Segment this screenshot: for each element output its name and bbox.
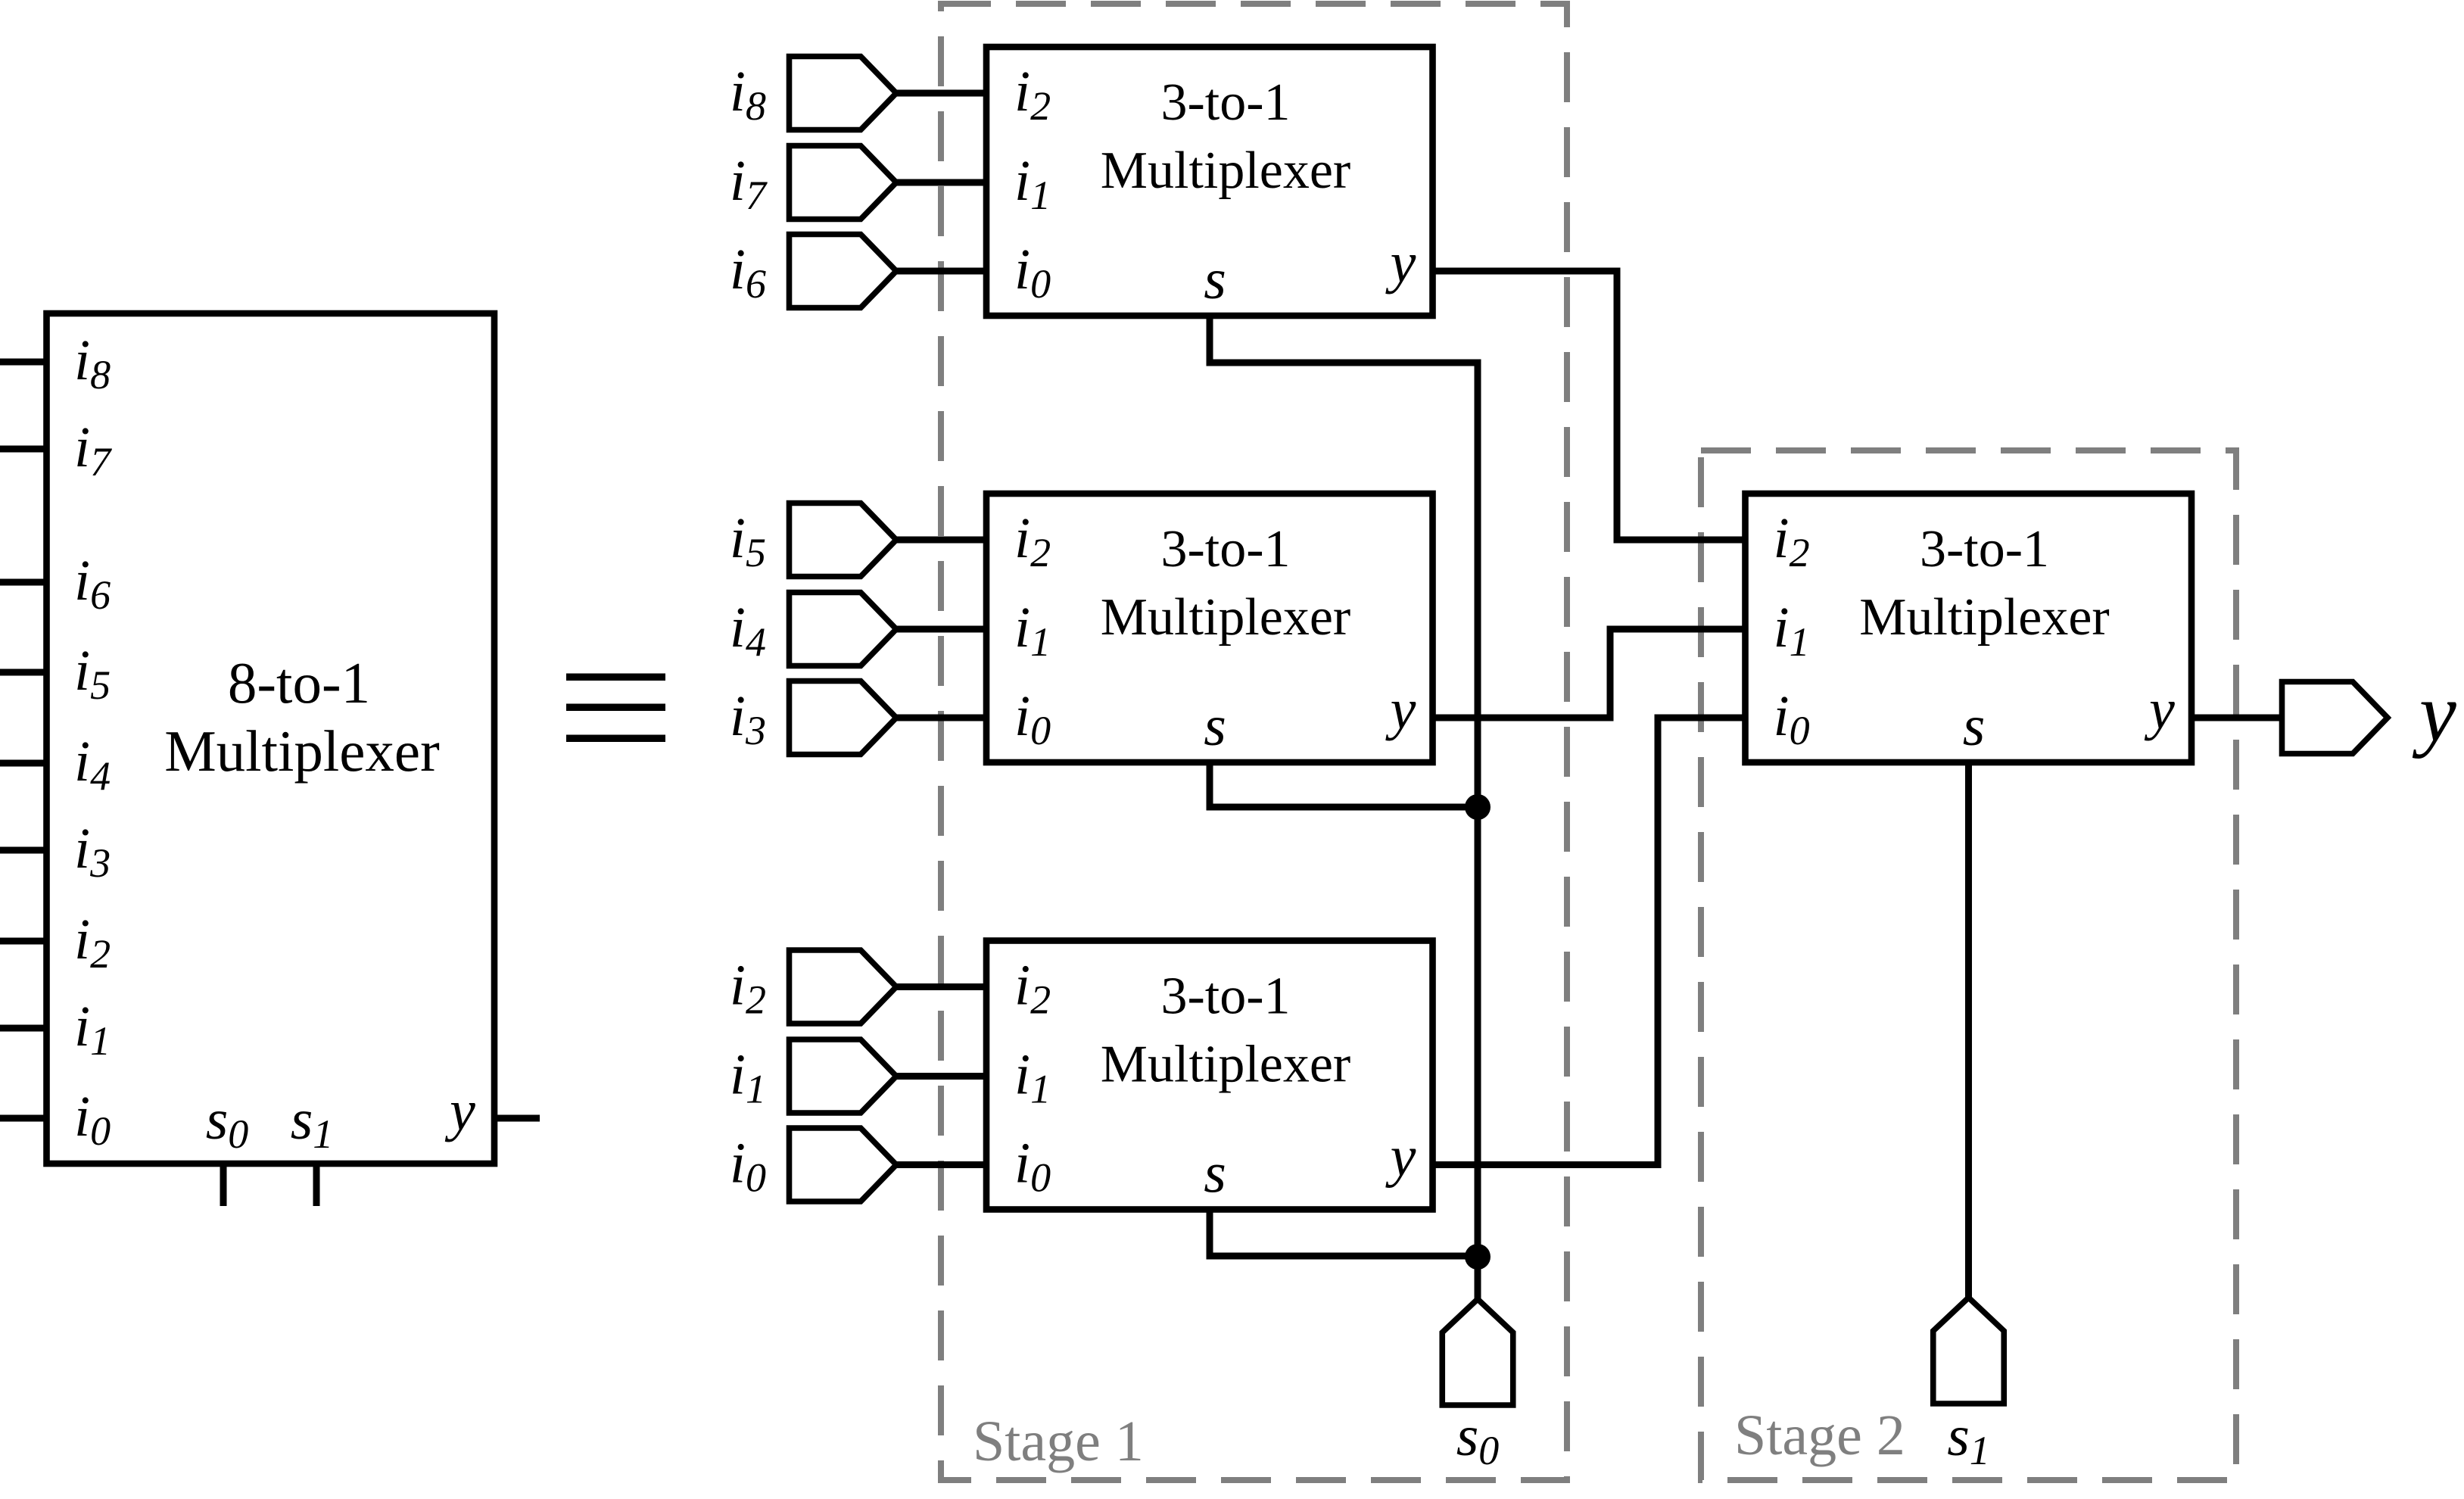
wire i0 flag to U4 xyxy=(896,1161,986,1168)
svg-text:i7: i7 xyxy=(730,149,768,218)
svg-text:i5: i5 xyxy=(74,639,111,708)
svg-text:i1: i1 xyxy=(1774,596,1810,665)
svg-text:y: y xyxy=(2412,666,2456,759)
3-to-1 multiplexer block U3 (middle of stage 1) xyxy=(986,494,1433,762)
wire input stub i2 of U1 xyxy=(0,938,47,945)
svg-text:s0: s0 xyxy=(1456,1404,1500,1473)
stage 2 dashed boundary box xyxy=(1701,450,2236,1480)
svg-text:i8: i8 xyxy=(74,329,111,397)
svg-text:3-to-1: 3-to-1 xyxy=(1920,520,2049,578)
input flag i0 xyxy=(790,1128,897,1201)
input flag i6 xyxy=(790,235,897,308)
svg-text:Multiplexer: Multiplexer xyxy=(1101,142,1350,200)
3-to-1 multiplexer block U2 (top of stage 1) xyxy=(986,47,1433,316)
junction node s0 / U3 s xyxy=(1465,794,1491,820)
svg-text:y: y xyxy=(444,1079,475,1142)
svg-text:Stage 2: Stage 2 xyxy=(1734,1404,1905,1467)
wire U3 y output to stage-2 i1 xyxy=(1433,629,1746,718)
wire i1 flag to U4 xyxy=(896,1073,986,1080)
wire select stub s0 of U1 xyxy=(220,1164,227,1206)
3-to-1 multiplexer block U5 (stage 2) xyxy=(1746,494,2192,762)
svg-text:i5: i5 xyxy=(730,506,766,575)
svg-text:i4: i4 xyxy=(74,730,111,799)
svg-text:Multiplexer: Multiplexer xyxy=(1101,1036,1350,1094)
svg-text:i1: i1 xyxy=(1014,1043,1051,1112)
svg-text:3-to-1: 3-to-1 xyxy=(1160,73,1290,132)
wire U5 y output to y flag xyxy=(2191,715,2282,721)
svg-text:3-to-1: 3-to-1 xyxy=(1160,520,1290,578)
output flag y xyxy=(2282,682,2388,754)
svg-text:s: s xyxy=(1204,1142,1226,1205)
svg-text:s: s xyxy=(1204,694,1226,758)
wire input stub i4 of U1 xyxy=(0,760,47,767)
svg-text:i6: i6 xyxy=(74,549,111,618)
input flag i1 xyxy=(790,1039,897,1113)
wire i8 flag to U2 xyxy=(896,90,986,97)
svg-text:i3: i3 xyxy=(730,684,766,753)
wire i7 flag to U2 xyxy=(896,179,986,186)
wire input stub i6 of U1 xyxy=(0,579,47,586)
wire i4 flag to U3 xyxy=(896,626,986,633)
wire U4 s pin to s0 net xyxy=(1210,1210,1478,1257)
svg-text:i2: i2 xyxy=(74,908,111,977)
svg-text:y: y xyxy=(1385,1125,1416,1189)
input flag i4 xyxy=(790,593,897,666)
svg-text:i0: i0 xyxy=(1014,1132,1051,1201)
svg-text:i1: i1 xyxy=(74,995,111,1064)
stage 1 dashed boundary box xyxy=(941,4,1567,1480)
svg-text:3-to-1: 3-to-1 xyxy=(1160,968,1290,1026)
input flag i2 xyxy=(790,950,897,1024)
wire input stub i1 of U1 xyxy=(0,1025,47,1032)
wire U4 y output to stage-2 i0 xyxy=(1433,718,1746,1165)
input flag s1 xyxy=(1933,1298,2005,1404)
svg-text:i3: i3 xyxy=(74,817,111,886)
wire input stub i0 of U1 xyxy=(0,1115,47,1122)
svg-text:s0: s0 xyxy=(206,1088,249,1157)
svg-text:s: s xyxy=(1204,248,1226,311)
svg-text:Stage 1: Stage 1 xyxy=(973,1410,1144,1473)
wire input stub i8 of U1 xyxy=(0,359,47,366)
svg-text:i1: i1 xyxy=(1014,596,1051,665)
wire select stub s1 of U1 xyxy=(313,1164,320,1206)
wire output stub y of U1 xyxy=(494,1115,540,1122)
svg-text:i2: i2 xyxy=(1014,954,1051,1023)
svg-text:s1: s1 xyxy=(291,1088,334,1157)
svg-text:Multiplexer: Multiplexer xyxy=(1859,588,2109,647)
wire input stub i7 of U1 xyxy=(0,446,47,453)
input flag i7 xyxy=(790,146,897,220)
wire U5 s pin to s1 flag xyxy=(1965,762,1972,1298)
wire i2 flag to U4 xyxy=(896,983,986,990)
svg-text:i7: i7 xyxy=(74,416,112,485)
input flag i5 xyxy=(790,503,897,577)
svg-text:s1: s1 xyxy=(1947,1404,1990,1473)
svg-text:y: y xyxy=(2144,678,2175,741)
svg-text:i1: i1 xyxy=(730,1043,766,1112)
wire input stub i3 of U1 xyxy=(0,847,47,854)
3-to-1 multiplexer block U4 (bottom of stage 1) xyxy=(986,941,1433,1210)
input flag s0 xyxy=(1442,1299,1513,1405)
svg-text:i0: i0 xyxy=(1774,684,1810,753)
svg-text:i0: i0 xyxy=(1014,238,1051,307)
wire i3 flag to U3 xyxy=(896,715,986,721)
input flag i8 xyxy=(790,57,897,130)
wire U3 s pin to s0 net xyxy=(1210,762,1478,807)
svg-text:i8: i8 xyxy=(730,60,766,129)
input flag i3 xyxy=(790,681,897,755)
svg-text:i2: i2 xyxy=(1014,60,1051,129)
svg-text:i0: i0 xyxy=(74,1085,111,1154)
svg-text:y: y xyxy=(1385,231,1416,295)
equivalence symbol (triple bar) xyxy=(566,674,665,743)
svg-text:i2: i2 xyxy=(1014,506,1051,575)
wire i6 flag to U2 xyxy=(896,268,986,275)
svg-text:i0: i0 xyxy=(730,1132,766,1201)
junction node s0 / U4 s xyxy=(1465,1244,1491,1270)
wire i5 flag to U3 xyxy=(896,537,986,544)
wire U2 s pin to s0 net (down to s0 flag) xyxy=(1210,316,1478,1299)
svg-text:i6: i6 xyxy=(730,238,766,307)
svg-text:i0: i0 xyxy=(1014,684,1051,753)
svg-text:i2: i2 xyxy=(730,954,766,1023)
8-to-1 multiplexer block U1 xyxy=(47,313,495,1164)
svg-text:y: y xyxy=(1385,678,1416,741)
svg-text:Multiplexer: Multiplexer xyxy=(164,718,440,784)
svg-text:8-to-1: 8-to-1 xyxy=(228,650,370,715)
svg-text:i2: i2 xyxy=(1774,506,1810,575)
wire input stub i5 of U1 xyxy=(0,669,47,676)
svg-text:i4: i4 xyxy=(730,596,766,665)
svg-text:Multiplexer: Multiplexer xyxy=(1101,588,1350,647)
svg-text:i1: i1 xyxy=(1014,149,1051,218)
svg-text:s: s xyxy=(1963,694,1986,758)
wire U2 y output to stage-2 i2 xyxy=(1433,271,1746,540)
